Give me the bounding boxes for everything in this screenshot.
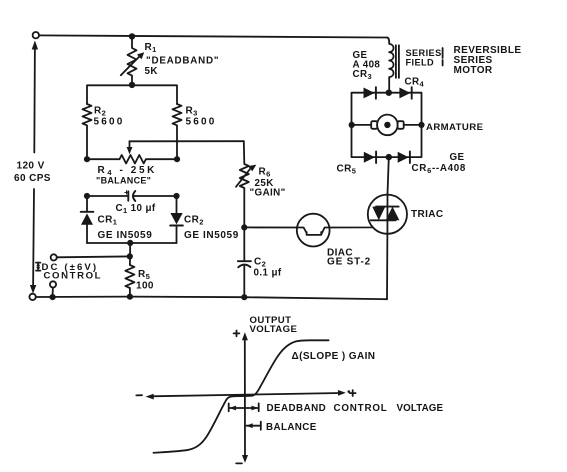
- wire: DIAC to TRIAC gate: [330, 220, 379, 227]
- potentiometer R4 (BALANCE): [87, 155, 177, 163]
- wire: wiper to R6: [130, 140, 244, 142]
- triac Q1: top bar: [376, 206, 399, 208]
- svg-text:FIELD: FIELD: [406, 58, 435, 68]
- armature M1: body circle: [377, 115, 398, 136]
- diode CR2: [176, 196, 178, 213]
- wire: diode pair bottom rail: [87, 242, 177, 244]
- triac Q1: bottom bar: [371, 219, 396, 221]
- GRAPH: transfer curve: [154, 340, 329, 453]
- svg-text:GE IN5059: GE IN5059: [98, 230, 153, 241]
- svg-text:100: 100: [136, 281, 154, 292]
- diode CR4: [399, 88, 410, 99]
- svg-text:CONTROL: CONTROL: [334, 403, 388, 414]
- wire: DC lower terminal to bottom rail: [52, 287, 54, 294]
- source line lower + arrow down: [32, 189, 35, 287]
- armature M1: right brush: [398, 121, 404, 129]
- armature M1: center dot: [384, 122, 390, 128]
- resistor R3: [173, 104, 182, 159]
- node: R2/R4 junction: [84, 156, 90, 162]
- wire: down to R5: [129, 243, 131, 265]
- svg-text:Δ(SLOPE ) GAIN: Δ(SLOPE ) GAIN: [292, 351, 376, 362]
- node: C1 right: [173, 193, 179, 199]
- node: bridge bottom center: [386, 154, 392, 160]
- wire: bottom rail: [36, 297, 387, 300]
- svg-text:DEADBAND: DEADBAND: [267, 403, 327, 414]
- triac Q1: right triangle: [386, 207, 400, 221]
- GRAPH: y axis: [244, 339, 246, 457]
- svg-text:5600: 5600: [94, 117, 125, 128]
- minus at x-axis left: [136, 394, 142, 396]
- svg-text:GE: GE: [450, 152, 465, 163]
- svg-text:SERIES: SERIES: [406, 48, 442, 58]
- svg-text:VOLTAGE: VOLTAGE: [397, 403, 444, 414]
- terminal: DC control upper: [51, 254, 57, 260]
- R6 arrow: [236, 168, 251, 187]
- inductor core lines: [396, 45, 399, 78]
- plus at x-axis right: [350, 390, 356, 396]
- svg-text:TRIAC: TRIAC: [411, 209, 444, 220]
- triac Q1: main vertical lead: [387, 157, 389, 299]
- R1 arrow: [121, 55, 141, 75]
- diode CR3: [364, 88, 375, 99]
- resistor R2: [83, 104, 92, 159]
- terminal: 120V top: [33, 32, 39, 38]
- node: bridge right / armature: [418, 122, 424, 128]
- svg-text:0.1 μf: 0.1 μf: [254, 268, 282, 279]
- node: top rail / R1 junction: [129, 33, 135, 39]
- wire: mid rail to R2/R3: [87, 85, 177, 104]
- plus at y-axis top: [234, 331, 240, 337]
- svg-text:"GAIN": "GAIN": [250, 188, 286, 199]
- diode CR5: [364, 152, 375, 163]
- DIAC internal symbol: [297, 228, 330, 235]
- svg-text:MOTOR: MOTOR: [454, 65, 493, 76]
- balance dimension marker: [247, 422, 261, 430]
- R4 wiper arrow: [129, 141, 131, 147]
- node: R6/C2/DIAC junction: [241, 224, 247, 230]
- diode CR1: [86, 196, 88, 212]
- wire: left to brush: [354, 124, 371, 126]
- node: diode rail to R5: [127, 240, 133, 246]
- svg-text:5K: 5K: [145, 66, 158, 77]
- svg-text:"DEADBAND": "DEADBAND": [146, 56, 219, 67]
- node: R3/R4 junction: [174, 156, 180, 162]
- node: bridge left / armature: [349, 122, 355, 128]
- source arrow up (120V measure line, upper): [33, 46, 36, 153]
- node: C2 bottom on rail: [241, 294, 247, 300]
- svg-text:CR6--A408: CR6--A408: [412, 163, 467, 175]
- node: DC control join: [127, 253, 133, 259]
- svg-text:120 V: 120 V: [17, 161, 45, 172]
- node: R1 bottom junction: [129, 82, 135, 88]
- svg-text:60 CPS: 60 CPS: [14, 173, 51, 184]
- triac Q1: internal lead: [386, 194, 388, 233]
- inductor L1 series field coil: [387, 38, 393, 93]
- svg-text:5600: 5600: [186, 117, 217, 128]
- resistor R1 (variable, DEADBAND): [128, 36, 137, 84]
- svg-text:ARMATURE: ARMATURE: [426, 122, 484, 133]
- svg-text:"BALANCE": "BALANCE": [96, 176, 151, 186]
- wire: top rail: [39, 35, 387, 37]
- node: R5 bottom on rail: [127, 294, 133, 300]
- wire: junction to DIAC: [247, 226, 297, 228]
- svg-text:GE IN5059: GE IN5059: [184, 230, 239, 241]
- terminal: DC control lower: [50, 281, 56, 287]
- DIAC U1 circle: [297, 214, 330, 247]
- resistor R5: [125, 265, 134, 297]
- wire: DC control to R5 node: [57, 255, 130, 258]
- resistor R6 (variable, GAIN): [240, 141, 249, 227]
- triac Q1: body circle: [368, 195, 407, 234]
- svg-text:+: +: [124, 187, 129, 197]
- svg-text:GE ST-2: GE ST-2: [327, 257, 371, 268]
- node: C1 left: [84, 193, 90, 199]
- svg-text:CONTROL: CONTROL: [44, 271, 103, 282]
- svg-text:C1 10 μf: C1 10 μf: [116, 203, 156, 215]
- node: coil to bridge top: [386, 90, 392, 96]
- capacitor C2: [243, 227, 245, 260]
- brace between field and motor labels: [442, 48, 444, 66]
- svg-text:BALANCE: BALANCE: [266, 422, 317, 433]
- wire: brush to right side: [404, 124, 422, 126]
- GRAPH: x axis: [151, 393, 342, 396]
- deadband dimension marker: [229, 403, 259, 411]
- dot after x-axis arrow: [348, 390, 351, 393]
- junction on bottom rail at DC: [50, 294, 56, 300]
- capacitor C1: [87, 195, 128, 197]
- diode CR6: [398, 152, 409, 163]
- triac Q1: left triangle: [372, 207, 385, 221]
- armature M1: left brush: [371, 121, 377, 129]
- minus at y-axis bottom: [236, 462, 242, 464]
- wire: bridge rectangle: [352, 93, 422, 157]
- terminal: 120V bottom: [29, 294, 35, 300]
- svg-text:VOLTAGE: VOLTAGE: [250, 324, 298, 335]
- DC updown arrow glyph: [36, 263, 40, 271]
